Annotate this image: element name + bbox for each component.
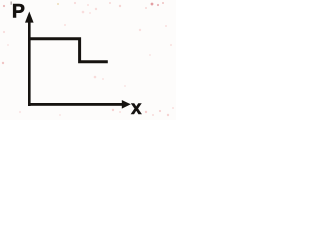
x-axis (28, 103, 123, 106)
y-axis (28, 18, 31, 106)
svg-text:x: x (131, 98, 142, 119)
paper background (0, 0, 176, 120)
svg-text:P: P (12, 0, 25, 22)
step function: high pressure segment (29, 39, 108, 62)
y-axis arrowhead (25, 12, 34, 23)
x-axis arrowhead (122, 100, 131, 109)
scan noise speckles (2, 2, 174, 117)
